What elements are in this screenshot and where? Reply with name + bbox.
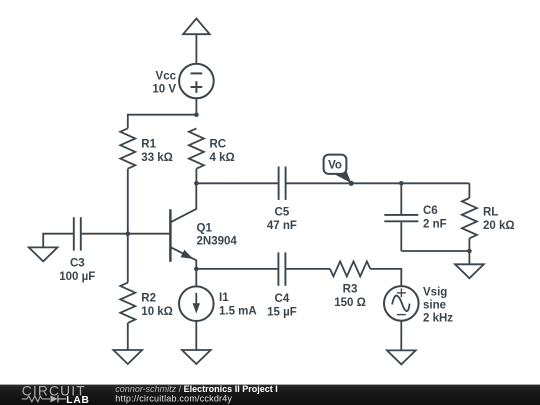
svg-text:2 kHz: 2 kHz bbox=[423, 312, 453, 324]
svg-text:I1: I1 bbox=[219, 292, 229, 304]
svg-text:Vsig: Vsig bbox=[423, 286, 447, 298]
wire Vcc source to top node bbox=[195, 98, 197, 114]
footer url line bbox=[115, 393, 232, 403]
wire base node to Q1 base bbox=[128, 233, 171, 235]
node collector junction bbox=[194, 181, 199, 186]
svg-text:Vcc: Vcc bbox=[156, 71, 177, 83]
svg-text:1.5 mA: 1.5 mA bbox=[219, 306, 257, 318]
svg-text:C6: C6 bbox=[423, 205, 438, 217]
svg-text:20 kΩ: 20 kΩ bbox=[483, 220, 515, 232]
svg-text:Q1: Q1 bbox=[197, 223, 213, 235]
svg-text:10 kΩ: 10 kΩ bbox=[141, 306, 173, 318]
value label R2 10 kOhm bbox=[141, 293, 173, 319]
wire C6 bottom lead bbox=[400, 222, 402, 251]
wire C3 ground stem bbox=[43, 234, 73, 248]
svg-text:R1: R1 bbox=[141, 139, 156, 151]
resistor R3 bbox=[330, 261, 370, 276]
value label Vsig sine 2 kHz bbox=[423, 286, 453, 324]
resistor RC bbox=[189, 128, 204, 168]
svg-text:Vo: Vo bbox=[328, 160, 342, 172]
value label C5 47 nF bbox=[267, 207, 297, 233]
capacitor C6 bbox=[384, 215, 418, 221]
svg-text:33 kΩ: 33 kΩ bbox=[141, 152, 173, 164]
wire VCC arrow to Vcc source bbox=[195, 34, 197, 64]
wire C3 to base node bbox=[81, 233, 127, 235]
svg-text:15 µF: 15 µF bbox=[267, 307, 297, 319]
svg-text:4 kΩ: 4 kΩ bbox=[210, 152, 235, 164]
transistor Q1 bbox=[170, 183, 196, 269]
ground under I1 bbox=[182, 350, 211, 364]
svg-text:http://circuitlab.com/cckdr4y: http://circuitlab.com/cckdr4y bbox=[115, 393, 232, 403]
svg-text:LAB: LAB bbox=[66, 395, 89, 405]
wire emitter node to I1 bbox=[195, 269, 197, 287]
capacitor C3 bbox=[74, 217, 81, 250]
wire base node to R2 bbox=[127, 234, 129, 283]
wire R1 to base node bbox=[127, 169, 129, 234]
wire top node to R1 bbox=[128, 115, 197, 129]
svg-text:RL: RL bbox=[483, 207, 498, 219]
wire collector node to C5 bbox=[196, 182, 278, 184]
wire R2 to ground bbox=[127, 323, 129, 350]
wire emitter node to C4 bbox=[196, 268, 277, 270]
svg-text:2 nF: 2 nF bbox=[423, 219, 447, 231]
svg-text:150 Ω: 150 Ω bbox=[334, 297, 366, 309]
ground at C3 bbox=[29, 247, 58, 261]
wire I1 to ground bbox=[195, 321, 197, 350]
svg-text:47 nF: 47 nF bbox=[267, 220, 297, 232]
node base junction bbox=[126, 231, 131, 236]
svg-text:R3: R3 bbox=[343, 284, 358, 296]
svg-text:C5: C5 bbox=[275, 207, 290, 219]
svg-text:sine: sine bbox=[423, 299, 446, 311]
logo LAB text bbox=[66, 395, 89, 405]
ground under Vsig bbox=[387, 350, 416, 364]
wire RL top lead bbox=[468, 183, 470, 198]
node C6 junction bbox=[399, 181, 404, 186]
footer bar bbox=[0, 384, 540, 405]
wire R3 to Vsig bbox=[370, 269, 401, 286]
svg-text:RC: RC bbox=[210, 139, 227, 151]
resistor RL bbox=[462, 198, 477, 238]
value label C6 2 nF bbox=[423, 205, 447, 231]
node emitter junction bbox=[194, 267, 199, 272]
resistor R2 bbox=[120, 283, 135, 323]
value label Vcc 10 V bbox=[152, 71, 176, 96]
capacitor C4 bbox=[278, 252, 285, 285]
wire RL bottom lead bbox=[468, 238, 470, 251]
wire C4 to R3 bbox=[286, 268, 330, 270]
value label C4 15 uF bbox=[267, 293, 297, 319]
value label R3 150 Ohm bbox=[334, 284, 366, 310]
power supply VCC arrow bbox=[183, 19, 210, 35]
node top junction bbox=[194, 112, 199, 117]
wire RC to collector node bbox=[195, 169, 197, 184]
ground under RL bbox=[455, 251, 484, 278]
svg-text:10 V: 10 V bbox=[152, 84, 176, 96]
value label I1 1.5 mA bbox=[219, 292, 257, 318]
node flag Vo bbox=[324, 155, 354, 186]
resistor R1 bbox=[120, 128, 135, 168]
value label C3 100 uF bbox=[59, 257, 95, 283]
svg-text:C4: C4 bbox=[275, 293, 290, 305]
value label R1 33 kOhm bbox=[141, 139, 173, 165]
svg-text:C3: C3 bbox=[70, 257, 85, 269]
value label RC 4 kOhm bbox=[210, 139, 235, 165]
logo waveform with resistor and diode bbox=[22, 395, 66, 402]
footer title line bbox=[115, 384, 277, 394]
svg-text:2N3904: 2N3904 bbox=[197, 236, 238, 248]
ground under R2 bbox=[113, 350, 142, 364]
wire Vsig to ground bbox=[400, 321, 402, 351]
value label RL 20 kOhm bbox=[483, 207, 515, 233]
svg-text:R2: R2 bbox=[141, 293, 156, 305]
wire C6 to RL bottom node bbox=[401, 250, 469, 252]
current source I1 bbox=[179, 286, 214, 321]
voltage source Vsig bbox=[384, 286, 419, 321]
wire C6 top lead bbox=[400, 183, 402, 214]
svg-text:100 µF: 100 µF bbox=[59, 271, 95, 283]
voltage source Vcc bbox=[179, 64, 214, 99]
logo CIRCUIT text bbox=[22, 384, 86, 399]
value label Q1 2N3904 bbox=[197, 223, 238, 248]
capacitor C5 bbox=[279, 167, 286, 200]
node RL bottom junction bbox=[467, 249, 472, 254]
wire C5 to RL corner bbox=[286, 182, 469, 184]
